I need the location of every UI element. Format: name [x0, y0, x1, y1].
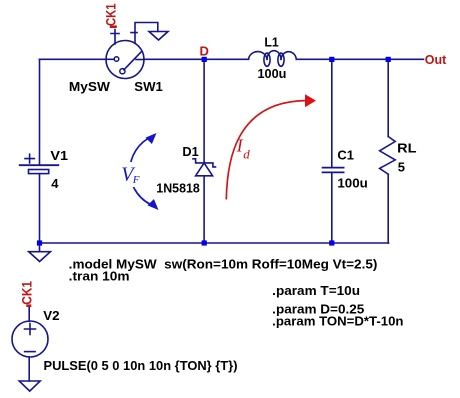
wire top rail left segment	[40, 58, 107, 60]
wire top rail switch to inductor	[144, 58, 249, 60]
label 5	[398, 160, 405, 175]
wire C1 branch lower	[331, 172, 333, 243]
annotation Vf text mask	[119, 162, 142, 187]
svg-text:.param T=10u: .param T=10u	[272, 283, 360, 298]
wire D1 branch lower	[203, 176, 205, 243]
svg-text:SW1: SW1	[134, 79, 163, 94]
annotation label Id	[236, 136, 251, 162]
resistor RL zigzag	[380, 137, 396, 175]
annotation arrowhead Vf top	[146, 133, 157, 144]
svg-text:.tran 10m: .tran 10m	[69, 269, 130, 284]
capacitor C1 top plate	[323, 167, 344, 169]
svg-text:100u: 100u	[337, 176, 367, 191]
switch SW1 plus control pin	[111, 30, 119, 45]
svg-text:5: 5	[398, 160, 405, 175]
diode D1 triangle	[196, 163, 213, 176]
wire ground stub bottom-left	[39, 243, 41, 252]
switch SW1 right stub	[136, 59, 144, 61]
annotation arrow Id curve (red)	[226, 101, 305, 200]
label CK1 bottom (rotated)	[19, 281, 35, 305]
wire D1 branch upper	[203, 59, 205, 163]
wire V1 branch lower	[39, 174, 41, 243]
svg-text:MySW: MySW	[69, 79, 111, 94]
label 100u capacitor	[337, 176, 367, 191]
wire C1 branch upper	[331, 59, 333, 167]
wire top rail inductor to Out	[296, 58, 423, 60]
svg-text:D1: D1	[182, 144, 198, 159]
switch SW1 arm	[124, 52, 142, 70]
inductor L1 loop 2	[278, 53, 284, 66]
wire V2 bottom	[28, 357, 30, 381]
ground at switch minus pin	[149, 32, 168, 41]
junction RL top	[386, 57, 391, 62]
label V1	[50, 148, 68, 163]
svg-text:PULSE(0 5 0 10n 10n {TON} {T}): PULSE(0 5 0 10n 10n {TON} {T})	[44, 358, 238, 373]
svg-text:RL: RL	[397, 141, 416, 156]
label D1	[182, 144, 198, 159]
inductor L1 loop 1	[264, 53, 270, 66]
tick CK1 top	[110, 25, 117, 28]
capacitor C1 bottom plate	[323, 171, 344, 173]
inductor L1 humps	[249, 51, 297, 67]
label 100u inductor	[258, 66, 287, 81]
label V2	[43, 308, 59, 323]
label RL	[397, 141, 416, 156]
svg-text:L1: L1	[264, 35, 278, 50]
junction node D square	[202, 57, 207, 62]
label SW1	[134, 79, 163, 94]
label 4	[51, 176, 59, 191]
label PULSE value	[44, 358, 238, 373]
voltage source V2 circle	[12, 321, 48, 357]
label L1	[264, 35, 278, 50]
switch SW1 minus control pin	[131, 23, 158, 44]
directive .tran	[69, 269, 130, 284]
voltage source V2 plus marker	[25, 324, 36, 335]
ground below V2	[19, 381, 40, 391]
svg-text:d: d	[243, 147, 250, 162]
label CK1 top (rotated)	[103, 3, 119, 26]
svg-text:CK1: CK1	[19, 281, 35, 305]
svg-text:F: F	[132, 174, 140, 186]
label MySW	[69, 79, 111, 94]
ground main bottom-left	[29, 252, 51, 262]
svg-text:D: D	[200, 44, 209, 59]
voltage source V2 minus marker	[25, 351, 35, 353]
junction V1 bottom	[37, 240, 42, 245]
svg-text:V1: V1	[50, 148, 68, 163]
svg-text:Out: Out	[425, 52, 447, 67]
label 1N5818	[156, 181, 200, 196]
svg-text:C1: C1	[337, 148, 354, 163]
junction D1 bottom	[202, 240, 207, 245]
directive .param TON	[272, 314, 403, 329]
switch SW1 left contact circle	[106, 57, 119, 62]
svg-text:CK1: CK1	[103, 3, 119, 26]
annotation arc Vf (blue)	[130, 136, 156, 207]
wire V1 branch upper	[39, 59, 41, 165]
wire RL branch upper	[387, 59, 389, 136]
wire bottom rail	[40, 242, 389, 244]
battery V1 top plate	[20, 164, 59, 166]
wire RL branch lower	[387, 174, 389, 243]
svg-text:1N5818: 1N5818	[156, 181, 200, 196]
directive .model	[69, 257, 378, 272]
annotation label Vf	[121, 163, 140, 186]
svg-text:.param TON=D*T-10n: .param TON=D*T-10n	[272, 314, 403, 329]
label node Out	[425, 52, 447, 67]
switch SW1 body circle	[106, 41, 144, 79]
annotation arrowhead Vf bottom	[148, 199, 159, 210]
directive .param D	[272, 301, 364, 316]
battery V1 bottom plate rectangle	[29, 170, 49, 174]
junction C1 top	[329, 57, 334, 62]
svg-text:V2: V2	[43, 308, 59, 323]
svg-text:4: 4	[51, 176, 59, 191]
diode D1 cathode bar with schottky hooks	[193, 159, 216, 167]
label C1	[337, 148, 354, 163]
tick CK1 bottom	[26, 304, 31, 307]
directive .param T	[272, 283, 360, 298]
battery V1 plus marker	[25, 154, 34, 163]
wire V2 top	[28, 307, 30, 321]
annotation arrowhead Id	[305, 94, 316, 107]
label node D	[200, 44, 209, 59]
switch SW1 pivot contact circle	[120, 69, 125, 74]
junction C1 bottom	[329, 240, 334, 245]
svg-text:100u: 100u	[258, 66, 287, 81]
